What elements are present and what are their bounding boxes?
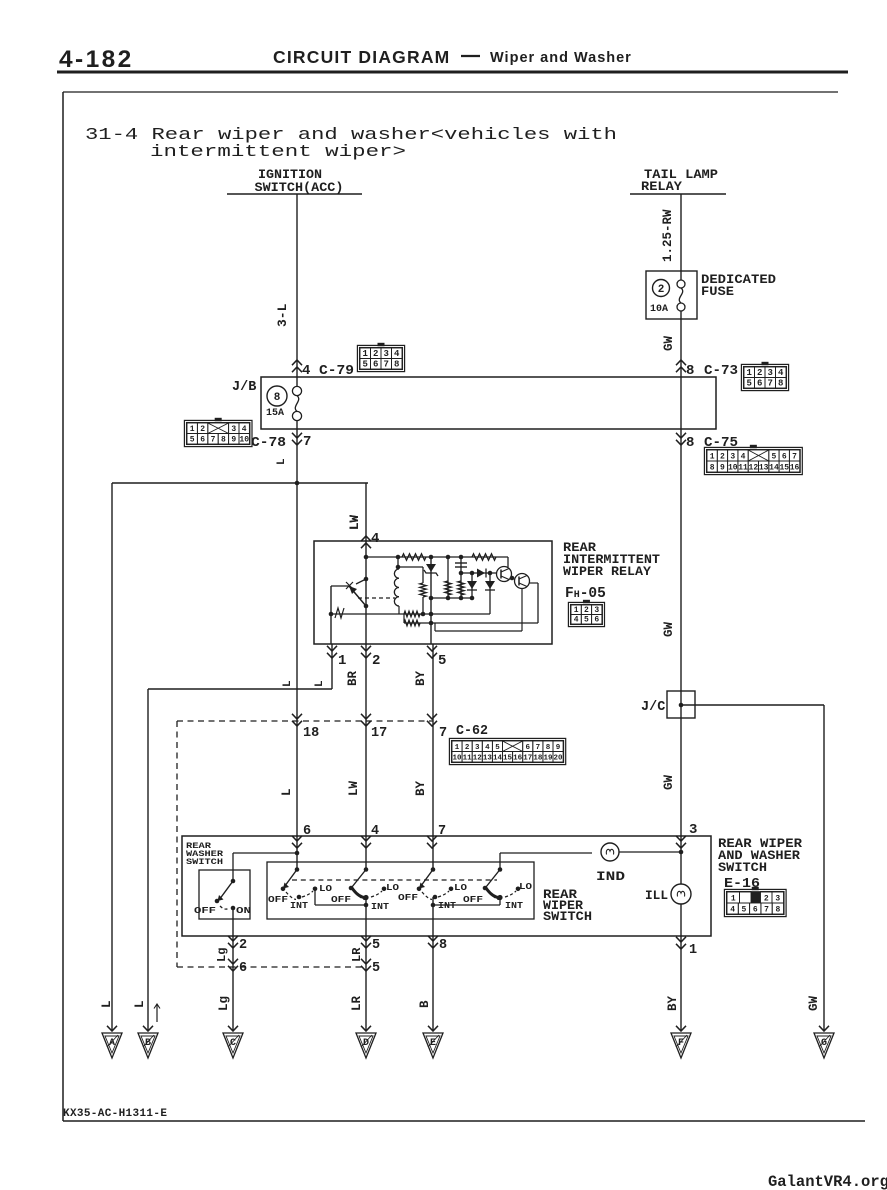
svg-text:11: 11: [463, 754, 473, 762]
svg-text:1: 1: [689, 943, 697, 958]
svg-text:8: 8: [710, 463, 715, 472]
svg-text:5: 5: [772, 452, 777, 461]
svg-text:OFF: OFF: [331, 894, 351, 905]
svg-text:8: 8: [546, 744, 551, 752]
svg-text:8: 8: [439, 938, 447, 953]
svg-text:6: 6: [239, 961, 247, 976]
svg-text:5: 5: [190, 435, 195, 444]
svg-text:3: 3: [384, 349, 389, 359]
svg-text:2: 2: [584, 606, 589, 615]
svg-text:FUSE: FUSE: [701, 284, 734, 299]
svg-text:1: 1: [747, 368, 753, 378]
svg-text:2: 2: [373, 349, 378, 359]
svg-text:4: 4: [371, 531, 379, 547]
svg-text:10: 10: [453, 754, 463, 762]
svg-text:Lg: Lg: [217, 996, 231, 1011]
svg-text:BY: BY: [414, 780, 428, 796]
svg-text:5: 5: [584, 615, 589, 624]
svg-text:KX35-AC-H1311-E: KX35-AC-H1311-E: [63, 1108, 167, 1120]
svg-text:J/B: J/B: [232, 380, 256, 395]
svg-text:3-L: 3-L: [275, 303, 290, 327]
svg-text:C-62: C-62: [456, 723, 488, 739]
svg-text:C-78: C-78: [251, 435, 286, 451]
svg-text:INT: INT: [290, 900, 308, 911]
svg-text:3: 3: [231, 425, 236, 434]
svg-text:9: 9: [720, 463, 725, 472]
svg-text:2: 2: [658, 284, 665, 296]
svg-text:11: 11: [738, 463, 748, 472]
svg-text:4: 4: [574, 615, 579, 624]
svg-text:GW: GW: [807, 995, 821, 1011]
svg-text:SWITCH: SWITCH: [718, 860, 767, 875]
svg-text:J/C: J/C: [641, 700, 665, 715]
svg-text:L: L: [282, 680, 294, 687]
svg-text:12: 12: [749, 463, 759, 472]
svg-text:OFF: OFF: [463, 894, 483, 905]
svg-text:OFF: OFF: [398, 892, 418, 903]
svg-text:14: 14: [769, 463, 779, 472]
svg-text:6: 6: [594, 615, 599, 624]
svg-text:4: 4: [741, 452, 746, 461]
svg-text:OFF: OFF: [194, 905, 216, 916]
svg-text:8: 8: [775, 905, 780, 914]
svg-text:OFF: OFF: [268, 894, 288, 905]
svg-text:17: 17: [523, 754, 532, 762]
svg-text:1: 1: [710, 452, 715, 461]
svg-text:3: 3: [594, 606, 599, 615]
svg-text:1: 1: [190, 425, 195, 434]
svg-text:GW: GW: [662, 621, 676, 637]
svg-text:1: 1: [574, 606, 579, 615]
svg-text:ILL: ILL: [645, 889, 668, 903]
svg-text:10: 10: [728, 463, 738, 472]
svg-text:13: 13: [483, 754, 493, 762]
svg-text:SWITCH: SWITCH: [186, 857, 223, 867]
svg-text:4: 4: [394, 349, 400, 359]
svg-text:LO: LO: [319, 883, 332, 894]
svg-text:9: 9: [231, 435, 236, 444]
svg-text:2: 2: [720, 452, 725, 461]
svg-text:20: 20: [554, 754, 564, 762]
svg-text:8: 8: [274, 392, 281, 404]
svg-text:2: 2: [757, 368, 762, 378]
svg-text:6: 6: [782, 452, 787, 461]
svg-text:16: 16: [513, 754, 523, 762]
svg-text:1: 1: [455, 744, 460, 752]
svg-text:2: 2: [239, 938, 247, 953]
svg-text:6: 6: [525, 744, 530, 752]
svg-text:17: 17: [371, 726, 387, 741]
svg-text:7: 7: [439, 726, 447, 741]
svg-text:GW: GW: [662, 335, 676, 351]
svg-text:4: 4: [371, 824, 379, 839]
svg-text:2: 2: [372, 653, 380, 669]
svg-text:7: 7: [792, 452, 797, 461]
svg-text:3: 3: [475, 744, 480, 752]
svg-text:1: 1: [338, 653, 346, 669]
svg-text:6: 6: [373, 359, 378, 369]
svg-text:7: 7: [384, 359, 389, 369]
svg-text:9: 9: [556, 744, 561, 752]
svg-text:5: 5: [372, 938, 380, 953]
svg-text:15A: 15A: [266, 408, 284, 419]
svg-text:GW: GW: [662, 774, 676, 790]
svg-text:7: 7: [303, 434, 311, 450]
svg-text:8: 8: [686, 435, 694, 451]
svg-text:2: 2: [200, 425, 205, 434]
svg-text:L: L: [276, 458, 288, 465]
svg-text:LW: LW: [347, 780, 361, 796]
svg-text:SWITCH: SWITCH: [543, 909, 592, 924]
svg-text:L: L: [280, 788, 294, 796]
svg-text:C-75: C-75: [704, 435, 738, 451]
svg-text:8: 8: [394, 359, 399, 369]
svg-text:3: 3: [768, 368, 773, 378]
svg-text:6: 6: [757, 378, 762, 388]
svg-text:RELAY: RELAY: [641, 179, 682, 194]
svg-text:5: 5: [495, 744, 500, 752]
svg-text:4: 4: [778, 368, 784, 378]
svg-text:16: 16: [790, 463, 800, 472]
svg-text:7: 7: [438, 824, 446, 839]
svg-text:BY: BY: [666, 995, 680, 1011]
svg-text:L: L: [100, 1000, 114, 1008]
svg-text:LO: LO: [454, 882, 467, 893]
svg-text:3: 3: [775, 894, 780, 903]
svg-text:INT: INT: [505, 900, 523, 911]
svg-text:L: L: [133, 1000, 147, 1008]
svg-text:IND: IND: [596, 870, 626, 884]
svg-text:8: 8: [778, 378, 783, 388]
svg-text:7: 7: [764, 905, 769, 914]
svg-text:5: 5: [438, 653, 446, 669]
svg-text:14: 14: [493, 754, 503, 762]
svg-text:18: 18: [303, 726, 319, 741]
svg-text:8: 8: [221, 435, 226, 444]
svg-text:CIRCUIT DIAGRAM: CIRCUIT DIAGRAM: [273, 47, 450, 67]
svg-text:7: 7: [768, 378, 773, 388]
svg-text:15: 15: [503, 754, 513, 762]
svg-text:BR: BR: [346, 670, 360, 686]
svg-text:1.25-RW: 1.25-RW: [661, 209, 675, 262]
svg-text:4: 4: [485, 744, 490, 752]
svg-text:5: 5: [742, 905, 747, 914]
svg-text:10A: 10A: [650, 304, 668, 315]
svg-text:3: 3: [730, 452, 735, 461]
svg-text:B: B: [418, 1000, 432, 1008]
svg-text:7: 7: [211, 435, 216, 444]
svg-text:15: 15: [779, 463, 789, 472]
svg-text:FH-05: FH-05: [565, 586, 606, 602]
svg-text:10: 10: [239, 435, 249, 444]
svg-text:INT: INT: [371, 901, 389, 912]
svg-text:ON: ON: [236, 905, 251, 916]
svg-text:1: 1: [731, 894, 736, 903]
svg-text:5: 5: [363, 359, 368, 369]
svg-text:SWITCH(ACC): SWITCH(ACC): [255, 180, 344, 195]
svg-text:6: 6: [303, 824, 311, 839]
svg-text:7: 7: [536, 744, 541, 752]
svg-text:13: 13: [759, 463, 769, 472]
svg-text:L: L: [314, 680, 326, 687]
svg-text:2: 2: [764, 894, 769, 903]
svg-text:intermittent wiper>: intermittent wiper>: [150, 143, 406, 162]
svg-text:12: 12: [473, 754, 483, 762]
svg-text:8: 8: [686, 363, 694, 379]
svg-text:WIPER RELAY: WIPER RELAY: [563, 564, 651, 579]
svg-text:LW: LW: [348, 514, 362, 530]
svg-text:5: 5: [747, 378, 752, 388]
svg-text:6: 6: [200, 435, 205, 444]
svg-text:4: 4: [242, 425, 247, 434]
svg-text:19: 19: [543, 754, 553, 762]
svg-text:Wiper and Washer: Wiper and Washer: [490, 50, 632, 66]
svg-text:GalantVR4.org: GalantVR4.org: [768, 1173, 887, 1190]
svg-text:1: 1: [363, 349, 369, 359]
svg-text:C-73: C-73: [704, 363, 738, 379]
svg-text:2: 2: [465, 744, 470, 752]
svg-text:18: 18: [533, 754, 543, 762]
svg-text:LR: LR: [350, 995, 364, 1011]
svg-text:LO: LO: [519, 881, 532, 892]
svg-text:4: 4: [730, 905, 735, 914]
svg-text:5: 5: [372, 961, 380, 976]
svg-text:6: 6: [753, 905, 758, 914]
svg-text:BY: BY: [414, 670, 428, 686]
svg-text:Lg: Lg: [215, 948, 229, 962]
svg-text:4-182: 4-182: [59, 46, 134, 73]
